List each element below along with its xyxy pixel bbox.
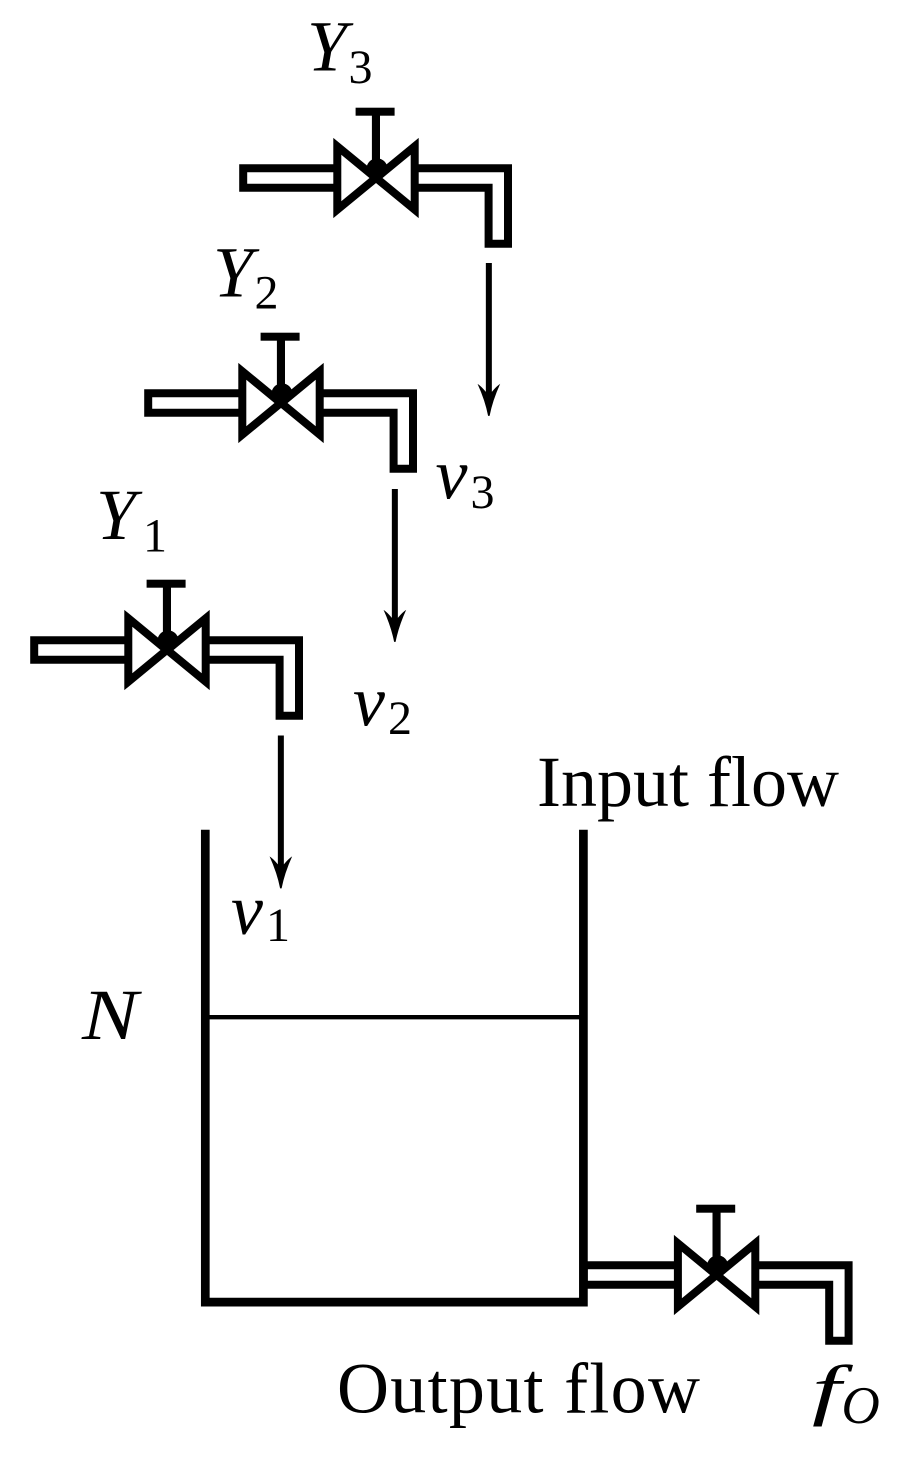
svg-text:Output flow: Output flow: [337, 1349, 701, 1429]
svg-text:Y: Y: [96, 475, 143, 555]
svg-text:N: N: [81, 975, 143, 1055]
svg-text:Input flow: Input flow: [537, 742, 839, 822]
svg-text:2: 2: [388, 692, 412, 745]
svg-text:3: 3: [349, 41, 373, 94]
valve Y2: [144, 333, 403, 473]
svg-text:Y: Y: [307, 7, 354, 87]
svg-text:1: 1: [266, 899, 290, 952]
valve Y3: [239, 108, 498, 248]
svg-text:3: 3: [471, 466, 495, 519]
svg-text:v: v: [231, 870, 263, 950]
output valve: [580, 1205, 839, 1345]
svg-text:O: O: [842, 1377, 880, 1435]
svg-text:1: 1: [143, 509, 167, 562]
flow arrow v3: [478, 263, 501, 416]
svg-text:2: 2: [255, 267, 279, 320]
svg-text:v: v: [436, 434, 468, 514]
tank walls: [205, 830, 583, 1302]
svg-text:Y: Y: [213, 233, 260, 313]
valve Y1: [30, 580, 289, 720]
liquid level line N: [207, 1015, 581, 1019]
flow arrow v1: [270, 736, 293, 889]
svg-text:v: v: [353, 661, 385, 741]
flow arrow v2: [384, 489, 407, 642]
